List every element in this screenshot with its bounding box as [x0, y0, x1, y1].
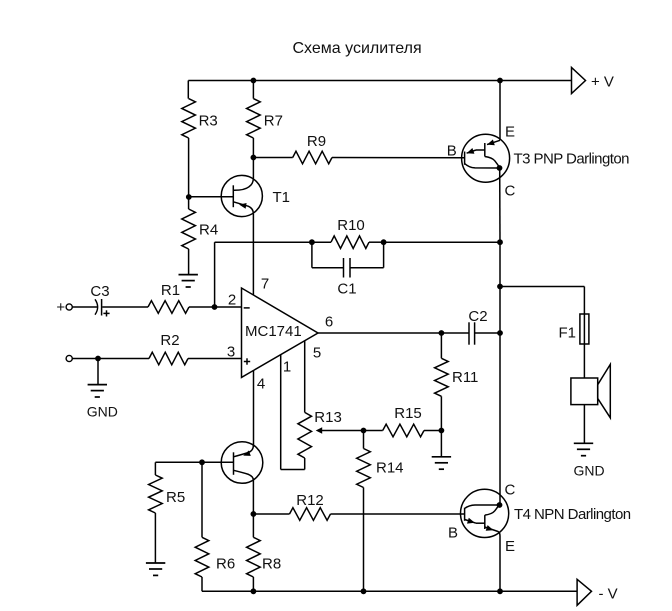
svg-text:E: E: [505, 538, 515, 555]
wire R4 to ground: [188, 249, 190, 275]
-V arrow symbol: [577, 579, 591, 605]
wire R7 to R9 node: [252, 138, 254, 158]
wire pin 4 to T2: [253, 370, 255, 445]
wire R13 bottom: [304, 458, 306, 470]
resistor R9: [293, 151, 332, 164]
wire R9 to T3 base: [332, 157, 465, 159]
transistor T4 NPN Darlington: [461, 333, 509, 591]
resistor R1: [148, 301, 189, 314]
wire pin2 node vertical: [214, 242, 216, 307]
svg-text:T1: T1: [273, 189, 291, 206]
junction R10/C1 left: [309, 239, 315, 245]
svg-text:R11: R11: [452, 369, 478, 386]
resistor R2: [149, 352, 188, 365]
svg-text:R9: R9: [307, 133, 326, 150]
svg-text:B: B: [448, 525, 458, 542]
svg-text:C1: C1: [337, 281, 356, 298]
junction input2 / gnd: [95, 356, 101, 362]
svg-text:R5: R5: [166, 489, 185, 506]
junction top rail / T3 emitter: [497, 78, 503, 84]
resistor R8: [247, 537, 261, 577]
wire input2 to R2: [73, 358, 150, 360]
input terminal 1: [66, 304, 72, 310]
svg-text:GND: GND: [87, 404, 118, 420]
svg-text:4: 4: [257, 376, 265, 393]
svg-text:C: C: [505, 482, 516, 499]
junction pin2 node: [212, 304, 218, 310]
junction bottom rail / T4 emitter: [497, 588, 503, 594]
wire R12 to T4 base: [331, 513, 465, 515]
svg-text:7: 7: [261, 276, 269, 293]
svg-text:6: 6: [325, 314, 333, 331]
capacitor C2: [441, 322, 500, 344]
wire input1 to C3: [73, 306, 98, 308]
junction rail / C2: [497, 330, 503, 336]
speaker LS1: [571, 364, 610, 417]
wire R1 to op-amp pin2: [189, 306, 242, 308]
wire R3 to T1 base node: [188, 138, 190, 197]
svg-text:Схема усилителя: Схема усилителя: [293, 40, 422, 57]
resistor R11: [435, 358, 449, 396]
resistor R12: [290, 508, 331, 521]
wire R8 bottom: [252, 577, 254, 591]
wire R5 top: [154, 462, 156, 475]
ground speaker: [574, 443, 593, 455]
wire T1 collector: [252, 158, 254, 179]
wire R7 top stub: [252, 81, 254, 99]
svg-text:R14: R14: [376, 460, 404, 477]
svg-text:C: C: [505, 182, 516, 199]
svg-text:+: +: [56, 299, 65, 316]
junction right rail / R10: [497, 239, 503, 245]
svg-text:R15: R15: [394, 405, 422, 422]
ground R15 node: [432, 457, 451, 469]
transistor T1: [221, 175, 262, 216]
ground GND input: [88, 385, 107, 397]
wire pin 7: [252, 214, 254, 295]
resistor R4: [182, 209, 196, 249]
wire pin 1: [280, 355, 282, 470]
wire -V bottom rail: [202, 590, 577, 592]
wire R4 top stub: [188, 197, 190, 209]
svg-text:R13: R13: [314, 409, 342, 426]
pin 3 plus sign: [244, 358, 250, 364]
junction top rail / R7: [251, 78, 257, 84]
junction R11/R15/gnd: [439, 428, 445, 434]
wire R11 top: [440, 333, 442, 358]
resistor R15: [383, 424, 424, 437]
wire R12 left: [253, 513, 289, 515]
junction output / R11: [439, 330, 445, 336]
junction wiper/R14/R15: [361, 428, 367, 434]
input terminal 2: [66, 355, 72, 361]
resistor R6: [195, 537, 209, 577]
wire to ground: [440, 431, 442, 457]
R13 wiper: [322, 430, 364, 432]
wire pin 6 output: [318, 332, 441, 334]
svg-text:GND: GND: [573, 462, 604, 478]
ground R5: [146, 563, 165, 575]
wire: [312, 241, 331, 243]
wire R5 to ground: [154, 513, 156, 563]
junction T2 collector / R8 / R12: [251, 511, 257, 517]
junction T2 base / R6: [199, 459, 205, 465]
wire T2 collector: [252, 480, 254, 514]
junction R10/C1 right: [381, 239, 387, 245]
op-amp U1 MC1741: [242, 288, 319, 377]
wire R11 bottom: [440, 396, 442, 430]
svg-text:F1: F1: [559, 325, 577, 342]
wire R10 left: [215, 241, 312, 243]
svg-text:T3 PNP Darlington: T3 PNP Darlington: [514, 151, 630, 168]
wire R14 to bottom rail: [363, 488, 365, 592]
svg-text:R3: R3: [199, 113, 218, 130]
wire R13 bottom to pin1: [281, 469, 305, 471]
svg-text:- V: - V: [599, 586, 618, 603]
svg-text:B: B: [447, 142, 457, 159]
svg-text:+ V: + V: [591, 74, 614, 91]
wire speaker to ground: [583, 405, 585, 444]
fuse F1: [580, 314, 589, 344]
wire R14 top: [363, 431, 365, 449]
svg-text:R4: R4: [199, 222, 218, 239]
svg-text:R2: R2: [160, 332, 179, 349]
ground R4: [179, 275, 198, 287]
wire T2 base: [155, 461, 233, 463]
wire R15 left: [364, 430, 383, 432]
junction rail / speaker branch: [497, 284, 503, 290]
wire +V top rail: [188, 80, 571, 82]
junction R7/R9/T1 collector: [251, 155, 257, 161]
wire C3 to R1: [102, 306, 148, 308]
wire: [369, 241, 384, 243]
transistor T2: [221, 442, 263, 484]
wire pin 5 to R13: [304, 341, 306, 413]
wire to GND: [97, 359, 99, 385]
node T1 base junction: [186, 194, 192, 200]
+V arrow symbol: [572, 68, 586, 94]
wire R2 to op-amp pin3: [188, 358, 242, 360]
resistor R3: [182, 99, 196, 138]
wire F1 vertical: [583, 287, 585, 379]
svg-text:C2: C2: [468, 308, 487, 325]
pin 2 minus sign: [244, 307, 250, 309]
wire R15 right: [424, 430, 441, 432]
junction bottom rail / R14: [361, 588, 367, 594]
svg-text:MC1741: MC1741: [245, 323, 302, 340]
resistor R5: [149, 475, 163, 513]
transistor T3 PNP Darlington: [462, 81, 510, 243]
svg-text:1: 1: [283, 359, 291, 376]
resistor R7: [247, 99, 261, 138]
wire T1 base: [189, 196, 234, 198]
svg-text:R1: R1: [161, 282, 180, 299]
wire R10 node to rail: [384, 241, 500, 243]
svg-text:R8: R8: [262, 556, 281, 573]
resistor R14: [357, 449, 371, 488]
svg-text:5: 5: [313, 345, 321, 362]
wire R8 top: [252, 514, 254, 537]
svg-text:R10: R10: [337, 217, 365, 234]
svg-text:R6: R6: [216, 556, 235, 573]
resistor R10: [331, 236, 369, 249]
junction bottom rail / R8: [251, 588, 257, 594]
svg-text:R7: R7: [264, 113, 283, 130]
wire R3 top stub: [187, 81, 189, 99]
wire R6 bottom: [201, 577, 203, 591]
svg-text:T4 NPN Darlington: T4 NPN Darlington: [514, 506, 631, 523]
wire to F1: [500, 286, 584, 288]
svg-text:C3: C3: [90, 283, 109, 300]
wire R6 top: [201, 462, 203, 537]
svg-text:3: 3: [227, 344, 235, 361]
svg-text:E: E: [505, 123, 515, 140]
svg-text:R12: R12: [296, 492, 324, 509]
capacitor C1: [312, 242, 384, 277]
wire right rail: [499, 242, 501, 333]
capacitor C3 (polarized): [95, 299, 110, 317]
svg-text:2: 2: [228, 292, 236, 309]
wire R9 left: [253, 157, 292, 159]
potentiometer R13: [298, 412, 312, 458]
